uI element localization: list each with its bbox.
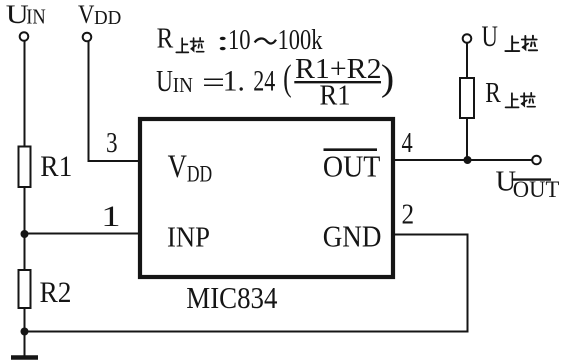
- wire pin 1: [25, 233, 140, 235]
- node A junction: [21, 230, 29, 238]
- svg-text:IN: IN: [26, 4, 46, 28]
- wire R2 to ground node: [24, 308, 26, 332]
- svg-text:R: R: [485, 77, 501, 109]
- svg-text:V: V: [168, 149, 187, 185]
- svg-text:10: 10: [228, 24, 251, 56]
- svg-text:2: 2: [402, 199, 415, 231]
- svg-text:IN: IN: [173, 73, 193, 97]
- wire U_IN to R1: [24, 41, 26, 147]
- svg-text:1.: 1.: [223, 66, 245, 98]
- resistor R1: [19, 147, 31, 188]
- svg-text:1: 1: [101, 200, 121, 233]
- svg-text:V: V: [78, 0, 95, 29]
- svg-text:OUT: OUT: [323, 148, 381, 183]
- wire V_DD to pin 3: [89, 41, 140, 161]
- svg-text:U: U: [156, 63, 173, 98]
- wire R1 to node A: [24, 187, 26, 270]
- svg-text:DD: DD: [94, 7, 121, 29]
- svg-text:DD: DD: [187, 161, 212, 186]
- ground: [24, 332, 26, 357]
- svg-text:R1: R1: [320, 79, 351, 111]
- IC U1 MIC834: [140, 119, 393, 277]
- terminal U_OUT: [532, 156, 541, 165]
- wire R_pullup to node C: [466, 118, 468, 160]
- node B junction (ground rail): [21, 328, 29, 336]
- terminal V_DD: [83, 33, 92, 42]
- svg-text:U: U: [482, 21, 498, 53]
- svg-text:4: 4: [402, 127, 414, 159]
- svg-text:R: R: [157, 23, 174, 55]
- svg-text:R2: R2: [40, 276, 72, 309]
- svg-text:INP: INP: [167, 221, 210, 253]
- svg-text:100k: 100k: [278, 24, 323, 56]
- svg-text:3: 3: [106, 127, 118, 159]
- terminal U_IN: [20, 32, 29, 41]
- svg-text:=: =: [202, 65, 225, 100]
- svg-text:GND: GND: [323, 219, 382, 254]
- terminal U_pullup: [463, 34, 472, 43]
- svg-text:R1: R1: [40, 150, 72, 183]
- svg-text:): ): [381, 59, 394, 99]
- svg-text:24: 24: [253, 66, 275, 98]
- wire pin 4 to output: [395, 159, 532, 161]
- node C junction (pull-up to OUT): [464, 156, 472, 164]
- wire ground rail to pin 2: [25, 235, 468, 332]
- resistor R_pullup: [460, 78, 474, 118]
- svg-text:MIC834: MIC834: [186, 280, 278, 315]
- svg-text:(: (: [283, 58, 292, 99]
- resistor R2: [19, 270, 31, 308]
- wire U_pullup to R_pullup: [466, 43, 468, 78]
